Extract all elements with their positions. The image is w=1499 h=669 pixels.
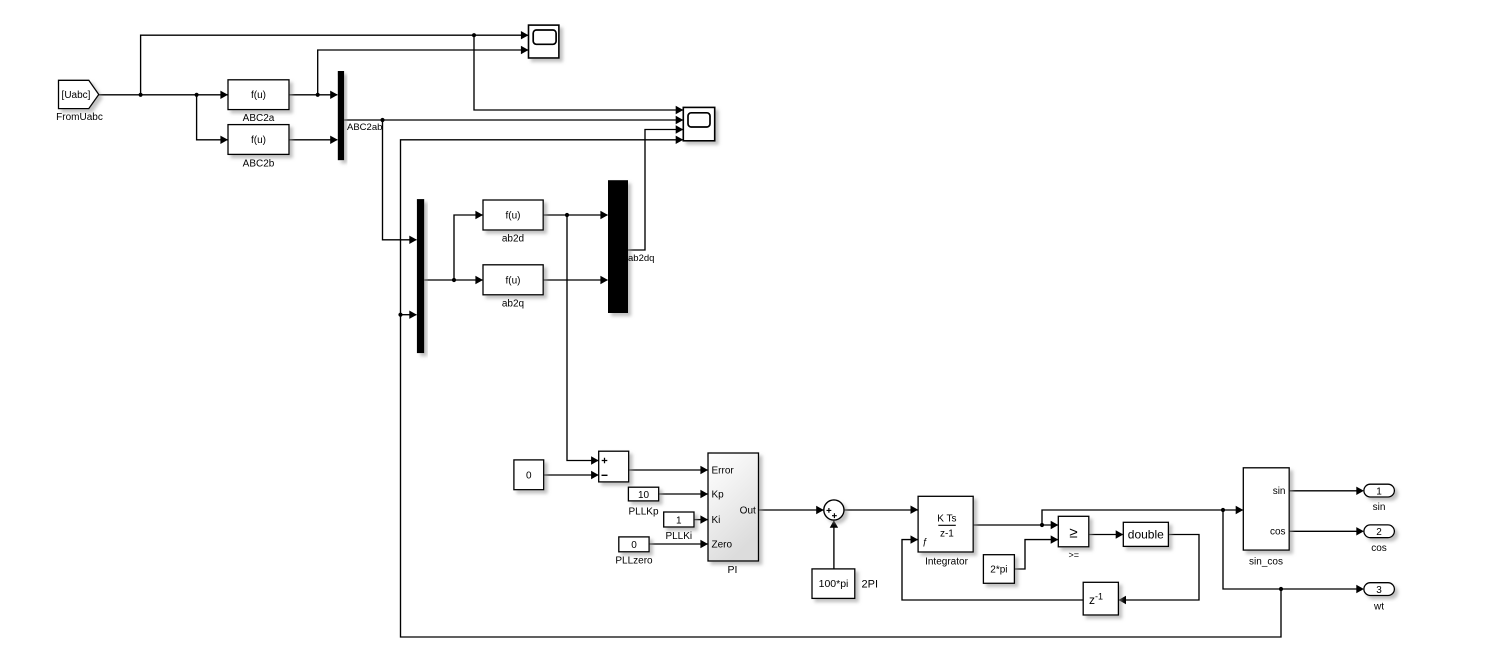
- mux ab2dq: [608, 180, 654, 313]
- wire PLLzero to PI Zero: [649, 543, 708, 545]
- arrowhead into Scope2 in3: [676, 125, 684, 133]
- constant PLLKi 1: [664, 512, 694, 542]
- svg-text:0: 0: [526, 471, 532, 482]
- outport 2 cos: [1364, 525, 1395, 554]
- svg-text:ABC2ab: ABC2ab: [347, 122, 382, 133]
- arrowhead into GTE in2: [1051, 535, 1059, 543]
- svg-text:FromUabc: FromUabc: [56, 112, 103, 123]
- arrowhead into Mux2 in2: [409, 311, 417, 319]
- relational operator GTE: [1058, 516, 1089, 560]
- mux Mux2: [417, 199, 424, 353]
- svg-text:≥: ≥: [1069, 525, 1077, 542]
- svg-text:f(u): f(u): [251, 90, 266, 101]
- svg-text:wt: wt: [1373, 601, 1384, 612]
- arrowhead into Integrator in1: [911, 506, 919, 514]
- junction dot B: [195, 93, 199, 97]
- wire Sum circle out to Integrator in1: [844, 509, 917, 511]
- from tag FromUabc: [56, 80, 103, 123]
- wire ab2dq out to Scope2 in3: [628, 130, 683, 251]
- arrowhead into Scope1 in1: [521, 31, 529, 39]
- svg-text:Error: Error: [712, 465, 735, 476]
- svg-text:K Ts: K Ts: [937, 513, 956, 524]
- svg-text:100*pi: 100*pi: [819, 578, 849, 590]
- junction dot A: [139, 93, 143, 97]
- arrowhead into PI Zero: [700, 540, 708, 548]
- wire PLLKi to PI Ki: [694, 519, 708, 521]
- arrowhead into Sum circle west: [816, 506, 824, 514]
- svg-text:Ki: Ki: [712, 515, 721, 526]
- svg-text:Zero: Zero: [712, 540, 733, 551]
- svg-text:Kp: Kp: [712, 489, 725, 500]
- svg-text:3: 3: [1376, 585, 1382, 596]
- wire branch up to Scope1 in1: [141, 35, 528, 95]
- wire GTE out to double: [1089, 534, 1123, 536]
- svg-text:PI: PI: [728, 564, 738, 576]
- svg-text:sin: sin: [1273, 486, 1286, 497]
- arrowhead into Outport2: [1356, 527, 1364, 535]
- wire branch up to ab2d: [454, 215, 483, 280]
- subsystem sin_cos: [1243, 468, 1289, 568]
- arrowhead into Scope2 in1: [676, 106, 684, 114]
- outport 3 wt: [1364, 583, 1395, 613]
- svg-text:1: 1: [676, 515, 682, 526]
- fcn block ABC2b: [228, 125, 289, 170]
- svg-text:cos: cos: [1371, 543, 1387, 554]
- constant PLLKp 10: [628, 487, 659, 517]
- fcn block ABC2a: [228, 80, 289, 124]
- arrowhead into Scope2 in4: [676, 136, 684, 144]
- mux Mux1 ABC2ab: [338, 71, 383, 160]
- arrowhead into GTE in1: [1051, 521, 1059, 529]
- fcn block ab2d: [483, 200, 543, 245]
- svg-text:2PI: 2PI: [862, 579, 879, 591]
- svg-text:10: 10: [638, 490, 650, 501]
- unit delay z-1: [1083, 582, 1118, 615]
- arrowhead into ab2dq in1: [600, 211, 608, 219]
- junction dot F: [452, 278, 456, 282]
- arrowhead into Scope2 in2: [676, 116, 684, 124]
- wire wt bottom feedback to Scope2 in4: [401, 140, 1282, 637]
- subsystem PI: [708, 453, 759, 576]
- svg-text:ab2d: ab2d: [502, 234, 524, 245]
- arrowhead into Integrator reset: [911, 535, 919, 543]
- wire cos to Outport2: [1289, 530, 1360, 532]
- svg-text:>=: >=: [1068, 550, 1079, 560]
- arrowhead into PI Ki: [700, 515, 708, 523]
- arrowhead into ab2q: [475, 276, 483, 284]
- junction dot E ABC2ab: [380, 118, 384, 122]
- arrowhead into ABC2b: [220, 136, 228, 144]
- wire branch down to ABC2b: [197, 95, 228, 140]
- svg-text:cos: cos: [1270, 527, 1286, 538]
- arrowhead into PI Kp: [700, 490, 708, 498]
- svg-text:sin: sin: [1373, 502, 1386, 513]
- scope Scope2: [683, 107, 714, 140]
- arrowhead into ABC2a: [220, 91, 228, 99]
- data type conversion double: [1123, 522, 1168, 546]
- arrowhead into Mux2 in1: [409, 236, 417, 244]
- arrowhead into unit delay (left): [1118, 596, 1126, 604]
- fcn block ab2q: [483, 265, 543, 310]
- svg-text:0: 0: [631, 540, 637, 551]
- svg-text:ab2q: ab2q: [502, 299, 524, 310]
- svg-text:PLLKi: PLLKi: [665, 531, 692, 542]
- constant PLLzero 0: [615, 537, 653, 567]
- wire Sum out to PI Error: [629, 469, 708, 471]
- svg-text:f(u): f(u): [251, 135, 266, 146]
- arrowhead into Sum circle south: [830, 520, 838, 528]
- wire 100*pi up to Sum circle: [833, 521, 835, 569]
- svg-text:f(u): f(u): [506, 210, 521, 221]
- arrowhead into Scope1 in2: [521, 46, 529, 54]
- wire FromUabc to ABC2a: [99, 94, 228, 96]
- wire ABC2a branch up to Scope1 in2: [318, 50, 528, 95]
- junction dot C: [316, 93, 320, 97]
- wire ABC2ab branch down to Mux2 in1: [383, 120, 417, 240]
- wire Scope2 in1 from top junction: [474, 35, 683, 110]
- junction dot D: [472, 33, 476, 37]
- arrowhead into Outport3: [1356, 585, 1364, 593]
- arrowhead into Sum minus: [591, 471, 599, 479]
- wire wt to Mux2 in2: [401, 314, 417, 316]
- svg-text:2: 2: [1376, 527, 1382, 538]
- wire PI Out to Sum circle: [759, 509, 824, 511]
- arrowhead into Outport1: [1356, 487, 1364, 495]
- svg-text:ABC2a: ABC2a: [243, 113, 275, 124]
- wire unit delay out to Integrator reset: [902, 540, 1083, 600]
- wire Integrator branch to sin_cos: [1042, 510, 1243, 525]
- wire ab2d branch down to Sum plus input: [567, 215, 598, 461]
- constant 2*pi: [983, 555, 1014, 584]
- arrowhead into ab2d: [475, 211, 483, 219]
- svg-text:[Uabc]: [Uabc]: [62, 90, 91, 101]
- arrowhead into Mux1 in2: [330, 136, 338, 144]
- arrowhead into ab2dq in2: [600, 276, 608, 284]
- wire ABC2b out to Mux1 in2: [289, 139, 337, 141]
- sum circle: [824, 500, 844, 520]
- wire wt run to Outport3: [1223, 510, 1361, 589]
- svg-text:2*pi: 2*pi: [990, 565, 1007, 576]
- svg-text:sin_cos: sin_cos: [1249, 557, 1283, 568]
- svg-text:z-1: z-1: [940, 529, 954, 540]
- arrowhead into sin_cos: [1236, 506, 1244, 514]
- scope Scope1: [529, 25, 559, 58]
- junction dot H wt: [398, 313, 402, 317]
- wire Mux1 out ABC2ab to Scope2 in2: [344, 119, 683, 121]
- wire Constant0 to Sum minus input: [544, 474, 598, 476]
- svg-text:Integrator: Integrator: [925, 556, 968, 567]
- junction dot J: [1221, 508, 1225, 512]
- wire Mux2 out to ab2q: [424, 279, 482, 281]
- arrowhead into Mux1 in1: [330, 91, 338, 99]
- wire double out to unit delay: [1119, 535, 1199, 601]
- integrator block: [918, 496, 973, 567]
- wire sin to Outport1: [1289, 490, 1360, 492]
- wire ab2q out to ab2dq in2: [543, 279, 607, 281]
- arrowhead into PI Error: [700, 466, 708, 474]
- svg-text:ab2dq: ab2dq: [628, 253, 654, 264]
- arrowhead into double: [1116, 530, 1124, 538]
- sum block rectangular: [599, 451, 629, 482]
- svg-text:PLLKp: PLLKp: [628, 506, 658, 517]
- svg-text:ƒ: ƒ: [922, 536, 927, 547]
- svg-text:1: 1: [1376, 486, 1382, 497]
- junction dot K: [1279, 587, 1283, 591]
- junction dot G: [565, 213, 569, 217]
- svg-text:ABC2b: ABC2b: [243, 159, 275, 170]
- wire Integrator out to GTE in1: [973, 524, 1058, 526]
- wire 2*pi to GTE in2: [1014, 540, 1057, 569]
- svg-text:f(u): f(u): [506, 275, 521, 286]
- constant 100*pi 2PI: [812, 569, 878, 599]
- constant 0 into sum: [514, 460, 544, 490]
- svg-text:Out: Out: [740, 505, 756, 516]
- junction dot I: [1040, 523, 1044, 527]
- wire ABC2a out to Mux1 in1: [289, 94, 337, 96]
- wire PLLKp to PI Kp: [659, 493, 708, 495]
- svg-text:PLLzero: PLLzero: [615, 556, 653, 567]
- arrowhead into Sum plus: [591, 456, 599, 464]
- outport 1 sin: [1364, 484, 1395, 513]
- svg-text:double: double: [1128, 527, 1164, 541]
- wire ab2d out to ab2dq in1: [543, 214, 607, 216]
